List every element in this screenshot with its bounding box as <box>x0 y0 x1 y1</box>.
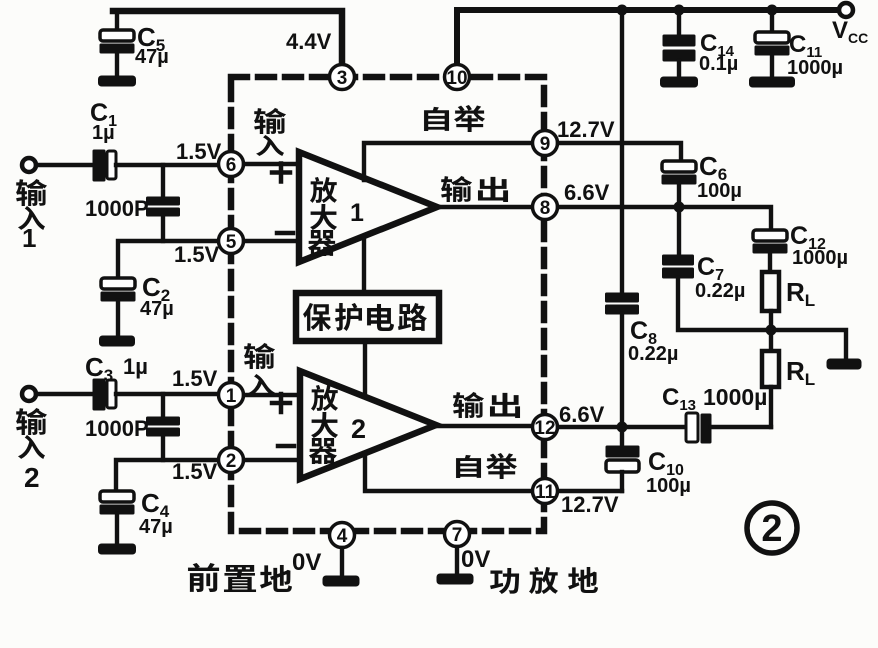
label bootstrap (bottom) <box>456 455 481 478</box>
wire pin 2 to amp2 - input <box>244 458 300 462</box>
svg-text:5: 5 <box>226 232 237 253</box>
wire RL lower to C13 line <box>769 387 773 427</box>
junction RL/C7 node <box>766 325 777 336</box>
svg-text:6.6V: 6.6V <box>559 402 605 427</box>
ground below C11 <box>750 77 795 87</box>
wire input1 to C1 <box>36 163 94 167</box>
svg-text:1.5V: 1.5V <box>172 366 218 391</box>
capacitor C11 plates <box>755 32 789 43</box>
pin 6 <box>219 152 244 177</box>
capacitor C3 <box>93 379 105 410</box>
pin 8 <box>533 195 558 220</box>
wire pin 8 to C12/RL branch <box>558 207 771 231</box>
svg-text:2: 2 <box>24 462 40 493</box>
junction top rail at x=622 <box>617 5 628 16</box>
wire C8 to output node <box>620 314 624 427</box>
label input 2 (vertical) <box>16 408 47 435</box>
svg-text:9: 9 <box>540 134 551 155</box>
svg-text:12.7V: 12.7V <box>561 492 619 517</box>
svg-text:1µ: 1µ <box>92 122 115 144</box>
wire C10 to pin 11 <box>558 489 622 493</box>
svg-text:3: 3 <box>337 68 348 89</box>
pin 9 <box>533 131 558 156</box>
svg-text:7: 7 <box>452 525 463 546</box>
wire to right ground <box>771 330 846 358</box>
output wire amp2 to pin 12 <box>436 424 532 428</box>
wire pin 2 to C4 branch <box>116 460 218 492</box>
capacitor C14 <box>677 10 681 36</box>
label input 1 (vertical) <box>16 179 47 206</box>
bootstrap wire amp2 to pin 11 <box>365 453 532 491</box>
label input (vertical) at pin 6 <box>254 108 286 134</box>
capacitor 1000P #2 <box>161 394 165 418</box>
ground below C4 <box>99 544 136 554</box>
ground below C5 <box>99 76 136 86</box>
wire pin 6 to amp1 + input <box>244 162 299 166</box>
plus sign amp2 <box>272 394 290 412</box>
wire pin 4 to ground <box>340 548 344 577</box>
pin 10 <box>445 65 470 90</box>
junction at C6/C7 on 6.6V line <box>674 202 685 213</box>
input terminal 1 <box>22 158 36 172</box>
svg-text:8: 8 <box>540 198 551 219</box>
svg-text:6: 6 <box>226 155 237 176</box>
pin 5 <box>219 229 244 254</box>
wire pin 5 to amp1 - input <box>244 239 299 243</box>
svg-text:1µ: 1µ <box>123 354 148 379</box>
svg-text:47µ: 47µ <box>135 46 169 68</box>
pin 3 <box>330 65 355 90</box>
capacitor C11 <box>770 10 774 33</box>
capacitor C7 <box>677 207 681 256</box>
svg-text:1.5V: 1.5V <box>176 139 222 164</box>
IC package dashed outline <box>231 77 544 531</box>
wire pin 1 to amp2 + input <box>244 393 300 397</box>
capacitor C13 <box>686 413 698 442</box>
svg-text:100µ: 100µ <box>697 180 742 202</box>
wire C1 to pin 6 <box>116 163 218 167</box>
capacitor 1000P #1 plates <box>147 197 180 205</box>
minus sign amp2 <box>278 444 294 449</box>
svg-text:1.5V: 1.5V <box>172 459 218 484</box>
svg-text:1000P: 1000P <box>85 416 149 441</box>
op-amp U1 (amplifier 1) <box>299 152 437 262</box>
wire C3 to pin 1 <box>116 392 218 396</box>
ground below pin 4 <box>323 576 359 586</box>
pin 12 <box>533 415 558 440</box>
minus sign amp1 <box>277 231 293 236</box>
capacitor C8 plates <box>606 293 639 302</box>
wire Vcc rail segment A (C5 top to pin 3) <box>113 11 342 62</box>
wire C13 to RL lower <box>711 425 771 429</box>
capacitor C10 <box>620 427 624 447</box>
protection circuit box <box>296 293 439 341</box>
wire vertical from Vcc rail to C8 <box>620 10 624 294</box>
svg-text:1: 1 <box>350 199 364 227</box>
junction output2 node <box>617 422 628 433</box>
wire protection circuit to amp2 <box>363 341 367 398</box>
svg-text:0V: 0V <box>292 549 321 576</box>
svg-text:0.22µ: 0.22µ <box>695 280 745 302</box>
wire input2 to C3 <box>36 392 94 396</box>
label output (bottom) <box>453 392 484 418</box>
output wire amp1 to pin 8 <box>437 205 532 209</box>
wire Vcc rail segment B (pin 10 to Vcc terminal) <box>457 10 840 62</box>
wire amp1 to protection circuit <box>362 237 366 294</box>
svg-text:11: 11 <box>535 482 556 503</box>
label output (top) <box>441 176 472 202</box>
ground right <box>827 359 861 369</box>
capacitor 1000P #2 plates <box>147 417 180 425</box>
pin 4 <box>330 523 355 548</box>
input terminal 2 <box>22 387 36 401</box>
label bootstrap (top) <box>424 107 449 131</box>
capacitor C6 <box>662 161 696 172</box>
svg-text:1000P: 1000P <box>85 196 149 221</box>
capacitor C5 plates <box>100 30 134 41</box>
svg-text:2: 2 <box>226 451 237 472</box>
svg-text:100µ: 100µ <box>646 475 691 497</box>
capacitor C14 plates <box>663 35 695 46</box>
pin 2 <box>219 448 244 473</box>
bootstrap wire amp1 to pin 9 <box>364 143 532 180</box>
junction top rail at x=772 <box>767 5 778 16</box>
Vcc terminal <box>839 3 853 17</box>
junction top rail at x=679 <box>674 5 685 16</box>
svg-text:1.5V: 1.5V <box>174 242 220 267</box>
ground below C2 <box>100 336 135 346</box>
op-amp U2 (amplifier 2) <box>300 371 436 479</box>
svg-text:2: 2 <box>761 508 782 550</box>
label power amp ground <box>490 568 519 594</box>
capacitor C5 <box>115 11 119 31</box>
svg-text:47µ: 47µ <box>139 516 173 538</box>
pin 11 <box>533 479 558 504</box>
wire pin 9 to C6 <box>558 143 681 162</box>
svg-text:10: 10 <box>446 68 467 89</box>
wire pin 7 to ground <box>455 547 459 575</box>
plus sign amp1 <box>272 164 290 182</box>
capacitor C7 plates <box>663 255 694 265</box>
capacitor 1000P #1 <box>161 165 165 198</box>
svg-text:0.22µ: 0.22µ <box>628 343 678 365</box>
ground below pin 7 <box>437 574 473 584</box>
svg-text:12: 12 <box>534 418 555 439</box>
svg-text:1: 1 <box>22 223 36 253</box>
svg-text:1: 1 <box>226 386 237 407</box>
capacitor C1 <box>93 150 105 181</box>
svg-text:2: 2 <box>351 414 366 444</box>
svg-text:4: 4 <box>337 526 348 547</box>
pin 7 <box>445 522 470 547</box>
wire pin 12 to C13 <box>558 425 687 429</box>
capacitor C2 plates <box>101 278 135 289</box>
svg-text:6.6V: 6.6V <box>564 180 610 205</box>
wire pin 5 to C2 branch <box>118 241 218 279</box>
svg-text:4.4V: 4.4V <box>286 29 332 54</box>
capacitor C4 plates <box>100 491 134 502</box>
svg-text:1000µ: 1000µ <box>787 57 843 79</box>
svg-text:0.1µ: 0.1µ <box>699 53 738 75</box>
svg-text:12.7V: 12.7V <box>557 117 615 142</box>
capacitor C12 plates <box>753 230 787 241</box>
label preamp ground <box>188 563 219 592</box>
figure number 2 (circled) <box>747 503 797 553</box>
svg-text:1000µ: 1000µ <box>792 247 848 269</box>
label protection circuit <box>303 303 331 331</box>
svg-text:0V: 0V <box>461 546 490 573</box>
resistor RL lower <box>769 330 773 351</box>
ground below C14 <box>661 77 698 87</box>
pin 1 <box>219 383 244 408</box>
label input (vertical) at pin 1 <box>244 343 275 369</box>
svg-text:1000µ: 1000µ <box>703 384 767 410</box>
resistor RL upper <box>762 272 779 311</box>
svg-text:47µ: 47µ <box>140 298 174 320</box>
